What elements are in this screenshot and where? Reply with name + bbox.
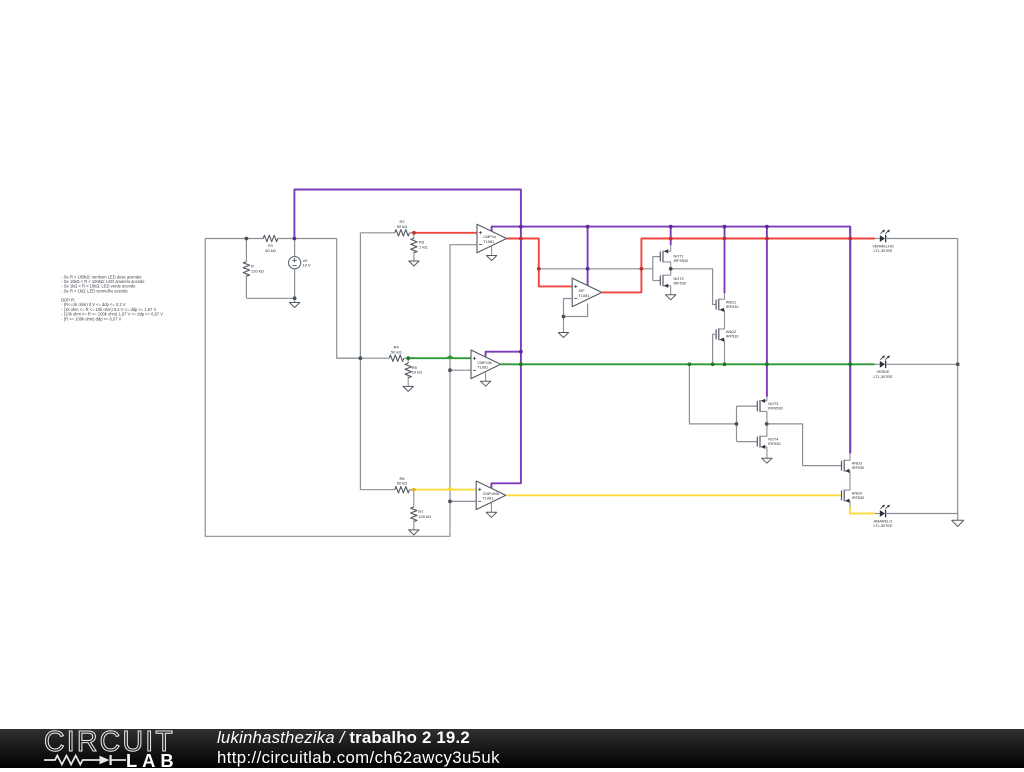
svg-text:LTL-307EE: LTL-307EE	[874, 524, 893, 528]
op-amp DIF	[572, 278, 602, 307]
wire: NOT3 source stub	[766, 397, 768, 401]
wire: NOT1/NOT2 gate input bar	[652, 257, 654, 281]
ground under DIF	[563, 317, 565, 333]
node red junction NOT3 supply crossing	[765, 237, 769, 241]
wire yellow: AND4 source to yellow LED	[850, 507, 875, 514]
node red junction AND1 supply crossing	[723, 237, 727, 241]
svg-text:AND1: AND1	[726, 300, 736, 304]
wire: AND3 drain stub	[849, 453, 851, 460]
wire: AND3 source to AND4 drain	[849, 471, 851, 490]
svg-text:IRF530: IRF530	[852, 466, 864, 470]
resistor R6	[395, 487, 410, 493]
svg-text:TL081: TL081	[579, 294, 590, 298]
ground under R3	[409, 261, 419, 266]
wire yellow: CMP100k output to AND4 gate	[507, 494, 842, 496]
wire: red LED cathode to right rail	[886, 238, 958, 240]
svg-text:AND2: AND2	[726, 330, 736, 334]
wire: right cathode rail	[957, 239, 959, 514]
wire red: DIF output up to red LED rail	[602, 239, 875, 293]
svg-text:50 kΩ: 50 kΩ	[265, 248, 276, 253]
wire: NOT1 gate lead	[653, 256, 661, 258]
op-amp CMP100k	[476, 481, 506, 510]
node red junction AND3 supply crossing	[848, 237, 852, 241]
wire: R2 input segment	[360, 232, 394, 234]
transistor NOT2 IRF530	[659, 276, 661, 286]
voltage source V0	[294, 239, 296, 257]
wire: DIF minus feedback loop to ground	[564, 299, 588, 317]
resistor R5	[407, 358, 409, 363]
ground under CMP100k	[490, 503, 492, 513]
wire purple: CMP10k supply stub	[486, 352, 521, 357]
svg-text:IRF530: IRF530	[852, 496, 864, 500]
svg-text:CMP10k: CMP10k	[477, 361, 492, 365]
node purple junction NOT3 on rail	[765, 225, 769, 229]
resistor R 120k	[245, 239, 247, 262]
node purple junction at V0	[293, 237, 297, 241]
wire green: R4/R5 node to CMP10k plus input	[408, 357, 471, 359]
svg-text:NOT3: NOT3	[768, 402, 778, 406]
wire: R1 to V0 and rect corner	[278, 238, 337, 240]
wire: AND2 gate lead down to green	[713, 334, 717, 364]
transistor AND2 IRF530	[715, 329, 717, 339]
node junction DIF ground loop	[562, 315, 566, 319]
svg-text:NOT2: NOT2	[674, 277, 684, 281]
ground under NOT4	[762, 458, 772, 463]
node purple junction CMP10k stub	[519, 350, 523, 354]
svg-text:50 kΩ: 50 kΩ	[397, 224, 408, 229]
node junction NOT3 input bar	[735, 422, 739, 426]
node purple junction DIF drop over signal	[586, 267, 590, 271]
svg-text:IRF530: IRF530	[674, 281, 686, 285]
svg-text:CMP100k: CMP100k	[483, 492, 500, 496]
node purple junction DIF drop on rail	[586, 225, 590, 229]
wire: NOT2 gate lead	[653, 280, 661, 282]
svg-text:IRF9530: IRF9530	[768, 407, 783, 411]
svg-text:AND3: AND3	[852, 462, 862, 466]
resistor R1	[263, 235, 278, 241]
node green junction NOT3 supply crossing	[765, 362, 769, 366]
node green junction AND2 source	[723, 362, 727, 366]
wire: CMP10k inverting input branch	[450, 369, 471, 371]
wire: NOT2 source to ground	[670, 286, 672, 295]
wire: yellow LED cathode to right rail	[886, 513, 958, 515]
svg-text:IRF530: IRF530	[768, 442, 780, 446]
svg-text:AND4: AND4	[852, 491, 862, 495]
footer title text	[217, 728, 470, 748]
wire: AND2 source down to green	[724, 340, 726, 365]
wire: green LED cathode to right rail	[886, 363, 958, 365]
svg-text:LTL-307EE: LTL-307EE	[874, 249, 893, 253]
transistor NOT4 IRF530	[756, 437, 758, 447]
wire purple: supply to NOT3 source	[766, 227, 768, 397]
wire yellow: R6/R7 node to CMP100k plus input	[414, 489, 476, 491]
svg-text:AMARELO: AMARELO	[874, 519, 893, 523]
ground under R7	[409, 530, 419, 535]
op-amp CMP10k	[471, 350, 501, 379]
wire: R4 input segment row2	[337, 357, 390, 359]
wire: NOT1 drain to output node	[670, 262, 672, 269]
wire: rect right vertical to row2	[337, 239, 361, 359]
node junction R5 top (green)	[406, 356, 410, 360]
svg-text:100 kΩ: 100 kΩ	[418, 514, 431, 519]
resistor R2	[395, 230, 410, 236]
ground under V0	[294, 298, 296, 302]
svg-text:TL081: TL081	[483, 497, 494, 501]
wire purple: supply to AND1 drain	[724, 227, 726, 294]
transistor NOT3 IRF9530	[756, 401, 758, 411]
CircuitLab logo	[44, 726, 175, 759]
svg-text:TL081: TL081	[477, 366, 488, 370]
wire: NOT4 gate lead	[737, 441, 758, 443]
ground under R5	[403, 386, 413, 391]
transistor AND4 IRF530	[841, 490, 843, 500]
wire: NOT3/4 output to AND3 gate	[767, 424, 842, 466]
svg-text:- Se R < 1kΩ: LED vermelho ac: - Se R < 1kΩ: LED vermelho acende	[61, 288, 128, 293]
wire: NOT3 gate lead	[737, 405, 758, 407]
transistor AND3 IRF530	[841, 461, 843, 471]
wire: AND1 drain stub	[724, 293, 726, 299]
footer url text	[217, 748, 500, 768]
node junction feeder row2	[359, 356, 363, 360]
svg-text:VERMELHO: VERMELHO	[872, 244, 893, 248]
wire: NOT3 drain to output node	[766, 411, 768, 424]
resistor R7	[413, 490, 415, 507]
logo resistor-diode glyph	[44, 754, 129, 770]
svg-text:IRF530: IRF530	[726, 335, 738, 339]
transistor NOT1 IRF9530	[659, 252, 661, 262]
svg-text:1 kΩ: 1 kΩ	[419, 244, 427, 249]
node junction on minus rail at CMP100k branch	[448, 500, 452, 504]
node junction on red output vertical	[537, 267, 541, 271]
wire: green tap down to NOT3/NOT4 input	[689, 364, 736, 424]
wire red: CMP1k output to DIF plus input	[507, 239, 573, 287]
wire red: R2/R3 node to CMP1k plus input	[414, 232, 477, 234]
wire: NOT2 drain to output node	[670, 269, 672, 275]
wire: AND4 source stub	[849, 501, 851, 507]
svg-text:10 kΩ: 10 kΩ	[412, 370, 423, 375]
op-amp CMP1k	[477, 224, 507, 253]
wire hop yellow over minus rail	[447, 488, 452, 490]
ground under CMP1k	[491, 246, 493, 256]
transistor AND1 IRF530	[715, 300, 717, 310]
ground at right rail bottom	[957, 514, 959, 521]
wire purple: V0 plus rail to top and CMP100k supply	[294, 190, 521, 489]
wire: CMP100k inverting input branch	[450, 500, 476, 502]
node green junction purple A crossing	[519, 362, 523, 366]
svg-text:LTL-307EE: LTL-307EE	[874, 375, 893, 379]
svg-text:IRF9530: IRF9530	[674, 259, 689, 263]
wire: top-left node R1/R/V0 line	[205, 238, 263, 240]
wire: NOT3/NOT4 gate input bar	[736, 406, 738, 442]
node red junction NOT1 supply crossing	[669, 237, 673, 241]
node purple junction on rail at vertical A	[519, 225, 523, 229]
svg-text:NOT1: NOT1	[674, 254, 684, 258]
node red junction purple crossing A	[519, 237, 523, 241]
node junction R7 top (yellow)	[412, 488, 416, 492]
ground under NOT2	[666, 295, 676, 300]
node purple junction NOT1 on rail	[669, 225, 673, 229]
wire: comparator output tap to NOT gate input	[539, 268, 653, 270]
resistor R4	[389, 355, 404, 361]
wire purple: supply to NOT1 source	[670, 227, 672, 246]
node purple junction AND1 on rail	[723, 225, 727, 229]
wire: NOT4 source to ground	[766, 447, 768, 458]
wire: R6 input segment row3	[360, 489, 394, 491]
wire: NOT4 drain to output node	[766, 424, 768, 436]
ground under CMP10k	[485, 372, 487, 382]
svg-text:50 kΩ: 50 kΩ	[391, 349, 402, 354]
node junction NOT pair output	[669, 267, 673, 271]
node junction DIF output red vertical with NOT input line	[640, 267, 644, 271]
node junction V0 minus	[293, 296, 297, 300]
wire: NOT output to AND1 gate	[671, 269, 716, 305]
node junction R3 top (red)	[412, 231, 416, 235]
wire purple: rail end down to AND3 drain	[849, 227, 851, 454]
svg-text:VERDE: VERDE	[876, 370, 890, 374]
wire: NOT1 source stub	[670, 245, 672, 251]
node junction right rail at green LED	[956, 362, 960, 366]
svg-text:IRF530: IRF530	[726, 305, 738, 309]
wire hop green over minus rail	[447, 356, 452, 358]
wire: R bottom to V0 minus	[246, 297, 294, 299]
node junction on minus rail at CMP10k branch	[448, 368, 452, 372]
node junction NOT3/NOT4 output	[765, 422, 769, 426]
svg-text:CMP1k: CMP1k	[483, 235, 496, 239]
node junction R top	[245, 237, 249, 241]
wire: left outer loop / inverting-input rail	[205, 239, 477, 537]
node green junction NOT3 input tap	[688, 362, 692, 366]
node green junction AND2 gate	[711, 362, 715, 366]
node green junction AND3 supply crossing	[848, 362, 852, 366]
LED VERMELHO LTL-307EE	[875, 238, 880, 240]
LED AMARELO LTL-307EE	[875, 513, 880, 515]
wire: divider feeder vertical R2..R6	[359, 233, 361, 490]
resistor R3	[413, 233, 415, 238]
LED VERDE LTL-307EE	[875, 363, 880, 365]
svg-text:50 kΩ: 50 kΩ	[397, 481, 408, 486]
wire green: CMP10k output to green LED	[501, 363, 875, 365]
svg-text:120 kΩ: 120 kΩ	[251, 268, 264, 273]
svg-text:DIF: DIF	[579, 289, 586, 293]
wire purple: CMP1k supply stub and top distribution rail	[492, 227, 851, 454]
wire: AND1 source to AND2 drain	[724, 310, 726, 329]
wire purple: DIF supply drop	[587, 227, 589, 286]
svg-text:10 V: 10 V	[303, 263, 312, 268]
svg-text:- (R >= 100k ohm) ddp >= 6,67: - (R >= 100k ohm) ddp >= 6,67 V	[61, 316, 121, 321]
svg-text:TL081: TL081	[483, 240, 494, 244]
svg-text:NOT4: NOT4	[768, 438, 778, 442]
